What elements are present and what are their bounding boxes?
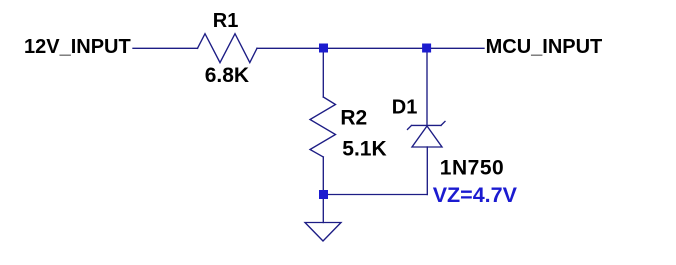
ground: [305, 223, 341, 242]
wire from 12V_INPUT to R1: [133, 47, 198, 49]
resistor R1: [198, 34, 258, 63]
svg-text:1N750: 1N750: [440, 156, 504, 179]
wire from R1 to MCU_INPUT: [257, 47, 484, 49]
wire D1 anode down: [426, 147, 428, 195]
node A junction: [319, 44, 328, 53]
svg-text:R2: R2: [340, 107, 367, 130]
wire R2 to node B: [322, 157, 324, 195]
resistor R2: [310, 97, 336, 157]
wire node B to D1 anode: [323, 194, 427, 196]
node B junction: [319, 190, 328, 199]
diode D1: [408, 121, 446, 147]
svg-text:6.8K: 6.8K: [205, 64, 249, 87]
svg-text:R1: R1: [213, 10, 239, 32]
svg-text:5.1K: 5.1K: [342, 138, 386, 161]
wire node A to R2: [322, 48, 324, 97]
wire node B to ground: [322, 195, 324, 223]
svg-text:12V_INPUT: 12V_INPUT: [24, 36, 131, 58]
svg-text:MCU_INPUT: MCU_INPUT: [486, 36, 603, 58]
node C junction: [422, 44, 431, 53]
svg-text:D1: D1: [392, 96, 418, 118]
svg-text:VZ=4.7V: VZ=4.7V: [433, 183, 518, 207]
wire node C to D1 cathode: [426, 48, 428, 125]
